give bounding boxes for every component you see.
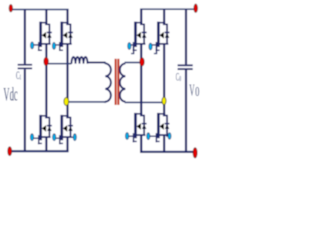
wire: left leg A drain lead [45, 10, 47, 25]
transistor Q1 (MOSFET with body diode) [33, 22, 52, 51]
wire: left leg B mid section [66, 44, 68, 117]
transformer secondary winding [120, 64, 126, 102]
gate node dot of Q8 [147, 133, 150, 140]
transformer core bar 1 [115, 59, 117, 105]
label C1 [16, 70, 21, 83]
gate node dot of Q4 [53, 134, 56, 141]
capacitor C0 [178, 64, 193, 70]
wire: right leg A mid section [140, 44, 142, 115]
wire: right leg B source-to-rail [163, 135, 165, 152]
wire: primary bottom stub [104, 101, 106, 103]
node: yellow junction on left leg B [64, 98, 69, 106]
transistor Q7 (MOSFET with body diode) [128, 113, 147, 142]
svg-text:1: 1 [20, 75, 22, 83]
extra node dot right of Q8 [166, 135, 169, 136]
gate node dot of Q7 [126, 133, 129, 140]
gate node dot of Q1 [31, 42, 34, 49]
gate node dot of Q5 [128, 43, 131, 50]
wire: leg A midpoint to inductor [46, 63, 72, 65]
wire: right leg A source-to-rail [140, 135, 142, 152]
transistor Q3 (MOSFET with body diode) [33, 115, 52, 144]
transistor Q5 (MOSFET with body diode) [130, 22, 146, 51]
wire: C0 branch lower lead [185, 70, 187, 152]
transformer primary winding [105, 64, 111, 102]
transistor Q4 (MOSFET with body diode) [55, 115, 73, 144]
wire: right leg B drain lead [163, 9, 165, 24]
node: yellow junction on right leg B [162, 97, 166, 105]
wire: left leg B drain lead [66, 10, 68, 25]
wire: leg B midpoint to transformer primary bottom [67, 101, 107, 103]
wire: C1 branch lower lead [24, 69, 26, 151]
wire: secondary bottom to right leg B [125, 102, 165, 104]
wire: left bridge bottom rail [10, 150, 69, 152]
svg-text:C: C [16, 70, 20, 83]
wire: right leg B mid section [163, 44, 165, 115]
wire: left leg A source-to-rail [45, 137, 47, 151]
terminal node: Vdc positive (top-left) [9, 5, 12, 12]
label C0 [176, 70, 182, 83]
wire: secondary top to right leg A [125, 62, 143, 64]
wire: left leg B source-to-rail [66, 137, 68, 151]
capacitor C1 [18, 64, 32, 69]
terminal node: Vdc negative (bottom-left) [8, 147, 12, 156]
extra node dot right of Q4 [71, 137, 74, 138]
svg-text:0: 0 [195, 84, 199, 100]
wire: C0 branch upper lead [185, 9, 187, 64]
wire: right leg A drain lead [140, 9, 142, 24]
gate node dot of Q2 [52, 43, 55, 50]
wire: right bridge bottom rail [140, 151, 194, 153]
gate return stub of Q5 [131, 53, 134, 54]
gate node dot of Q6 [149, 43, 152, 50]
wire: C1 branch upper lead [24, 10, 26, 64]
wire: primary top stub [104, 62, 106, 64]
wire: left leg A mid section [45, 44, 47, 117]
transistor Q8 (MOSFET with body diode) [149, 113, 169, 142]
wire: right bridge top rail [140, 8, 194, 10]
terminal node: Vo positive (top-right) [194, 4, 198, 12]
inductor L [72, 57, 106, 64]
gate return stub of Q6 [154, 53, 157, 54]
wire: left bridge top rail [11, 9, 69, 11]
gate node dot of Q3 [30, 134, 33, 141]
node: red junction on right leg A [140, 58, 144, 66]
svg-text:C: C [176, 70, 179, 83]
label Vo [189, 81, 199, 99]
transistor Q2 (MOSFET with body diode) [55, 22, 73, 51]
transformer core bar 2 [117, 59, 119, 105]
svg-text:V: V [189, 81, 195, 99]
label Vdc [3, 85, 18, 106]
node: red junction on left leg A [44, 57, 48, 65]
transistor Q6 (MOSFET with body diode) [151, 22, 169, 51]
svg-text:Vdc: Vdc [3, 85, 18, 106]
svg-text:0: 0 [179, 76, 181, 83]
terminal node: Vo negative (bottom-right) [193, 148, 197, 158]
